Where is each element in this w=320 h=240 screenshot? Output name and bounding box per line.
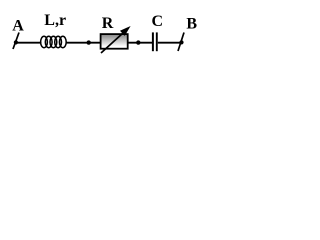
svg-text:C: C (152, 13, 164, 30)
svg-text:L,r: L,r (44, 12, 66, 29)
svg-text:B: B (186, 15, 197, 32)
svg-text:A: A (12, 18, 24, 35)
svg-text:R: R (102, 15, 114, 32)
